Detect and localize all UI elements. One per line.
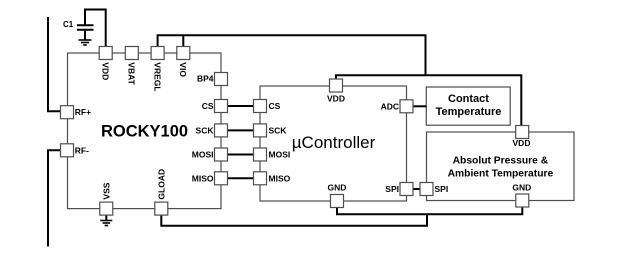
wire CS bus: [228, 105, 254, 107]
wire supply rail VREGL/VIO to top: [158, 35, 426, 75]
svg-text:VDD: VDD: [101, 62, 111, 80]
svg-text:Absolut Pressure &: Absolut Pressure &: [453, 156, 549, 167]
IC block ROCKY100: [68, 53, 222, 209]
wire antenna to RF+: [48, 17, 61, 111]
pin RF- (ROCKY100 left): [61, 144, 90, 157]
svg-text:BP4: BP4: [197, 73, 214, 83]
svg-text:µController: µController: [292, 133, 376, 152]
svg-text:CS: CS: [202, 101, 214, 111]
svg-text:VREGL: VREGL: [153, 62, 163, 91]
svg-text:ADC: ADC: [381, 101, 399, 111]
sensor block Contact Temperature: [426, 87, 510, 125]
svg-text:VSS: VSS: [101, 182, 111, 199]
svg-text:GND: GND: [512, 183, 531, 193]
svg-text:SCK: SCK: [269, 125, 288, 135]
pin VDD (µController top): [327, 79, 345, 104]
wire MISO bus: [228, 177, 254, 179]
pin VREGL (ROCKY100 top): [151, 47, 164, 92]
svg-text:GND: GND: [328, 182, 347, 192]
wire GND rail between µController and sensor: [337, 207, 522, 214]
pin VDD (sensor top): [513, 126, 531, 148]
svg-text:SCK: SCK: [196, 125, 215, 135]
wire antenna to RF-: [48, 150, 61, 246]
svg-text:VBAT: VBAT: [127, 62, 137, 85]
wire SCK bus: [228, 129, 254, 131]
wire C1 top plate to VDD pin: [85, 10, 106, 47]
pin MISO (ROCKY100 right): [192, 172, 228, 185]
wire VDD rail to µController VDD and sensor VDD: [336, 75, 521, 125]
pin MISO (µController left): [254, 172, 291, 185]
svg-text:VDD: VDD: [327, 94, 345, 104]
svg-text:RF+: RF+: [75, 107, 91, 117]
svg-text:ROCKY100: ROCKY100: [101, 123, 188, 141]
pin RF+ (ROCKY100 left): [61, 106, 92, 119]
pin SPI (µController right): [385, 183, 413, 196]
pin VDD (ROCKY100 top): [99, 47, 112, 81]
svg-text:SPI: SPI: [435, 184, 449, 194]
microcontroller block µController: [260, 86, 407, 201]
pin CS (ROCKY100 right): [202, 100, 228, 113]
pin MOSI (µController left): [254, 148, 291, 161]
wire GND rail to GLOAD: [161, 214, 427, 226]
pin BP4 (ROCKY100 right): [197, 73, 228, 86]
pin SPI (sensor left): [420, 183, 448, 196]
pin CS (µController left): [254, 100, 281, 113]
svg-text:Contact: Contact: [448, 93, 489, 105]
svg-text:Ambient Temperature: Ambient Temperature: [448, 169, 554, 180]
pin GND (sensor bottom): [512, 183, 531, 208]
pin VIO (ROCKY100 top): [177, 47, 190, 78]
svg-text:MOSI: MOSI: [269, 150, 291, 160]
svg-text:C1: C1: [63, 20, 74, 29]
wire ADC to Contact Temperature: [413, 105, 426, 107]
pin MOSI (ROCKY100 right): [192, 148, 228, 161]
ground (below C1): [79, 40, 92, 45]
pin ADC (µController right): [381, 100, 413, 113]
wire MOSI bus: [228, 154, 254, 156]
pin SCK (µController left): [254, 124, 288, 137]
svg-text:Temperature: Temperature: [436, 106, 502, 118]
svg-text:CS: CS: [269, 101, 281, 111]
sensor block Absolut Pressure & Ambient Temperature: [427, 132, 575, 201]
svg-text:VDD: VDD: [513, 138, 531, 148]
pin VBAT (ROCKY100 top): [125, 47, 138, 86]
svg-text:VIO: VIO: [178, 62, 188, 77]
svg-text:MOSI: MOSI: [192, 150, 214, 160]
svg-text:MISO: MISO: [269, 173, 291, 183]
svg-text:SPI: SPI: [385, 184, 399, 194]
svg-text:GLOAD: GLOAD: [156, 169, 166, 200]
capacitor C1: [63, 20, 94, 40]
pin SCK (ROCKY100 right): [196, 124, 228, 137]
pin VSS (ROCKY100 bottom): [100, 182, 113, 215]
ground (below VSS): [100, 215, 112, 225]
pin GLOAD (ROCKY100 bottom): [155, 169, 168, 215]
pin GND (µController bottom): [328, 182, 347, 207]
wire VIO stub to rail: [182, 35, 184, 46]
svg-text:MISO: MISO: [192, 173, 214, 183]
wire SPI link: [413, 188, 420, 190]
svg-text:RF-: RF-: [75, 145, 89, 155]
